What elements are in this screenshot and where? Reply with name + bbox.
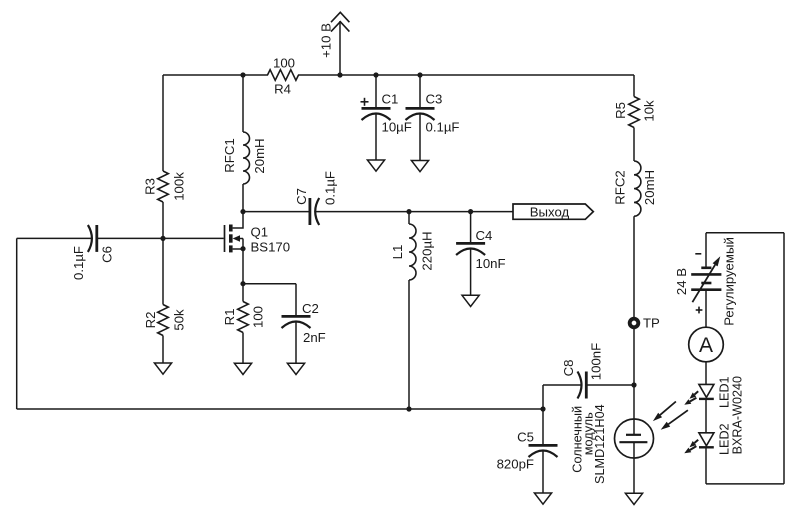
capacitor C5 [529, 444, 558, 447]
node junction C4 top [468, 209, 473, 214]
capacitor C2 [282, 315, 311, 318]
svg-text:SLMD121H04: SLMD121H04 [593, 404, 607, 484]
svg-text:10µF: 10µF [382, 120, 412, 135]
test point TP [630, 319, 639, 328]
svg-text:C4: C4 [476, 228, 493, 243]
resistor R2 with leads [162, 238, 164, 304]
node junction gate bias [160, 236, 165, 241]
light arrow to solar 1 [660, 402, 676, 415]
svg-text:0.1µF: 0.1µF [71, 246, 86, 280]
node source-body junction [240, 246, 245, 251]
LED1 emission arrows [694, 391, 698, 394]
ground under R2 [154, 363, 171, 374]
svg-text:R2: R2 [143, 312, 158, 329]
capacitor C1 [362, 107, 391, 110]
svg-text:10nF: 10nF [476, 256, 506, 271]
svg-text:C8: C8 [561, 360, 576, 377]
diode LED1 [699, 384, 714, 397]
svg-text:50k: 50k [171, 309, 186, 331]
svg-text:A: A [699, 334, 713, 357]
power symbol +10V arrow [331, 12, 349, 22]
output flag Выход [513, 204, 593, 219]
wire LED loop right [783, 233, 785, 484]
wire battery to ammeter [705, 291, 707, 327]
node drain junction [240, 209, 245, 214]
capacitor C4 [456, 242, 485, 245]
svg-text:100: 100 [273, 56, 295, 71]
node junction C3 [417, 72, 422, 77]
ground under C2 [287, 363, 304, 374]
node source junction [240, 281, 245, 286]
svg-text:L1: L1 [390, 245, 405, 260]
wire battery top lead [705, 233, 707, 267]
transistor Q1 source stub [233, 248, 243, 250]
svg-text:100: 100 [250, 306, 265, 328]
wire LED1 to LED2 [705, 399, 707, 433]
wire gate node to Q1 gate [163, 237, 224, 239]
wire RFC2 to solar [633, 216, 635, 385]
wire C7 to output [315, 211, 513, 213]
LED2 emission arrows [694, 440, 698, 443]
svg-text:10k: 10k [641, 100, 656, 122]
node junction L1 bottom [406, 406, 411, 411]
battery 24V plates [701, 266, 711, 269]
wire source down [242, 249, 244, 284]
svg-text:820pF: 820pF [497, 457, 534, 472]
wire C5 top lead [542, 409, 544, 444]
light arrow to solar 2 [668, 410, 688, 424]
svg-text:LED1: LED1 [717, 376, 731, 408]
node junction C8 [631, 382, 636, 387]
solar module circle [615, 419, 654, 458]
wire solar top lead [633, 385, 635, 435]
svg-text:0.1µF: 0.1µF [426, 120, 460, 135]
svg-text:+10 В: +10 В [318, 23, 333, 58]
svg-text:20mH: 20mH [642, 170, 657, 205]
label battery minus [695, 253, 701, 255]
svg-text:C3: C3 [426, 92, 443, 107]
svg-text:TP: TP [643, 316, 660, 331]
svg-text:R3: R3 [142, 178, 157, 195]
transistor Q1 channel segments [229, 225, 233, 232]
ground under C4 [462, 295, 479, 306]
node junction C1 [373, 72, 378, 77]
svg-text:R1: R1 [222, 309, 237, 326]
svg-text:0.1µF: 0.1µF [322, 171, 337, 205]
svg-text:R4: R4 [274, 81, 291, 96]
resistor R4 [268, 70, 299, 81]
wire C3 bottom lead [419, 115, 421, 161]
capacitor C8 [585, 372, 588, 399]
inductor RFC1 with leads [242, 75, 244, 132]
ground under C5 [534, 493, 551, 504]
wire C8 corner down [542, 385, 544, 409]
wire power stub [339, 21, 341, 75]
ammeter circle [689, 327, 724, 362]
capacitor C6 [95, 225, 98, 252]
transistor Q1 body arrow [238, 238, 243, 240]
ground under C3 [411, 161, 428, 172]
node junction C5 top [540, 406, 545, 411]
node junction R4-right / +10V [337, 72, 342, 77]
inductor L1 with leads [408, 212, 410, 224]
node junction RFC1 top [240, 72, 245, 77]
wire C8 right lead [586, 384, 634, 386]
wire C6 left lead [17, 237, 92, 239]
svg-text:2nF: 2nF [303, 330, 326, 345]
ground under C1 [367, 160, 384, 171]
wire C5 bottom lead [542, 452, 544, 494]
wire C8 left lead [543, 384, 582, 386]
ground under solar module [625, 493, 642, 504]
transistor Q1 drain stub [233, 212, 243, 228]
svg-text:20mH: 20mH [252, 138, 267, 173]
wire C4 top lead [470, 212, 472, 242]
wire gate node to C6 [97, 237, 163, 239]
diode LED2 [699, 433, 714, 446]
wire LED2 bottom lead [705, 447, 707, 484]
svg-text:BXRA-W0240: BXRA-W0240 [730, 376, 744, 454]
svg-text:100k: 100k [171, 172, 186, 201]
svg-text:24 В: 24 В [674, 268, 689, 295]
capacitor C3 [406, 107, 435, 110]
svg-text:C7: C7 [294, 188, 309, 205]
capacitor C7 [308, 198, 311, 225]
wire C1 top lead [375, 75, 377, 107]
wire C4 bottom lead [470, 250, 472, 296]
svg-text:100nF: 100nF [588, 343, 603, 380]
wire LED loop bottom [706, 483, 784, 485]
svg-text:C2: C2 [302, 301, 319, 316]
node junction L1 top [406, 209, 411, 214]
wire C1 bottom lead [375, 115, 377, 161]
svg-text:C6: C6 [99, 246, 114, 263]
wire bottom rail [17, 408, 543, 410]
label battery plus [696, 309, 703, 311]
wire left vertical feedback [16, 238, 18, 409]
svg-text:220µH: 220µH [420, 231, 435, 270]
svg-text:C1: C1 [382, 92, 399, 107]
wire source to C2 [243, 283, 296, 285]
svg-text:RFC1: RFC1 [222, 138, 237, 172]
svg-text:R5: R5 [613, 102, 628, 119]
ground under R1 [234, 363, 251, 374]
svg-text:LED2: LED2 [717, 423, 731, 455]
resistor R5 with leads [633, 75, 635, 97]
wire solar bottom lead [633, 442, 635, 493]
label C1 plus sign [361, 101, 369, 103]
svg-text:Q1: Q1 [251, 225, 269, 240]
battery adjustable arrow [692, 265, 715, 302]
resistor R1 with leads [242, 284, 244, 302]
wire C3 top lead [419, 75, 421, 107]
wire top rail left segment [163, 74, 268, 76]
wire LED loop top [706, 232, 784, 234]
svg-text:RFC2: RFC2 [613, 170, 628, 204]
wire ammeter to LED1 [705, 362, 707, 385]
inductor RFC2 [634, 161, 641, 216]
svg-text:C5: C5 [517, 430, 534, 445]
wire drain to C7 [243, 211, 310, 213]
transistor Q1 gate bar [224, 225, 226, 252]
svg-text:Регулируемый: Регулируемый [722, 237, 737, 326]
svg-text:BS170: BS170 [251, 240, 291, 255]
resistor R3 with leads [162, 75, 164, 171]
solar module cell plates [626, 434, 641, 436]
svg-text:Выход: Выход [530, 204, 570, 219]
wire top rail right segment [298, 74, 634, 76]
wire C2 bottom lead [295, 323, 297, 364]
